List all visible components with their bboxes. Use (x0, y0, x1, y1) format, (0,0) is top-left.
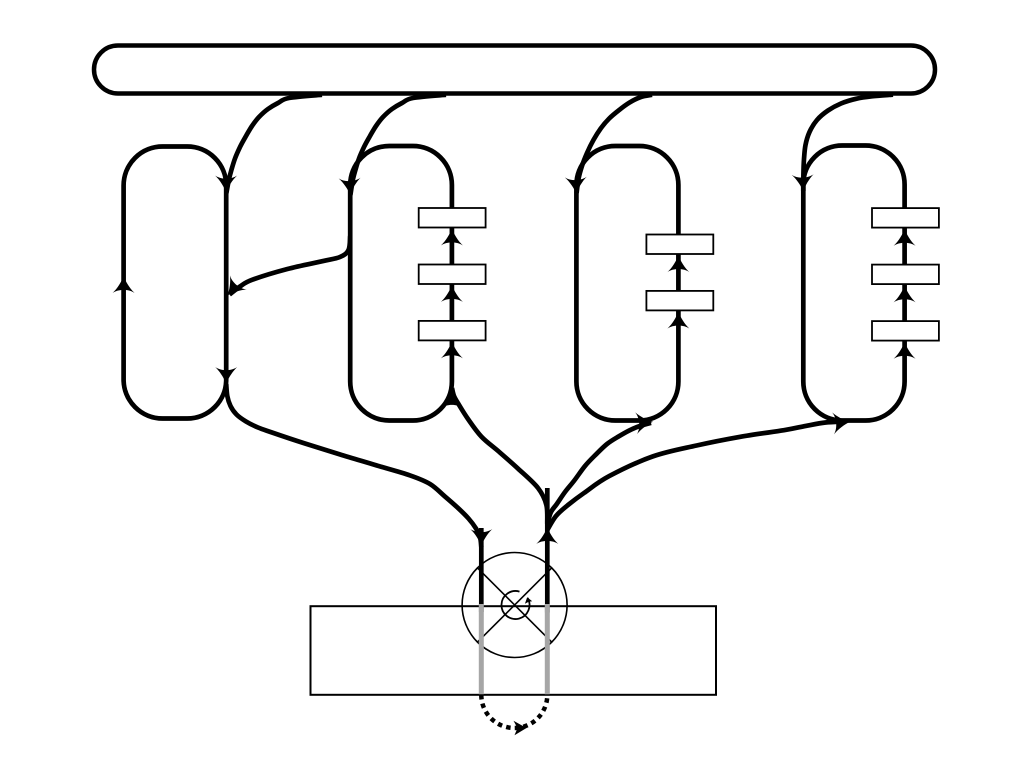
wire bar to L3 (577, 95, 652, 193)
arrow up into rect L3-1 (667, 255, 689, 272)
pump cross blade 1 (478, 568, 552, 642)
dashed arc arrowhead (514, 721, 527, 736)
arrow up into rect L4-1 (894, 229, 916, 246)
arrow up into rect L3-2 (667, 312, 689, 329)
loop L2 (350, 146, 452, 421)
arrowheads on thick wires (113, 174, 851, 546)
wire crossover L2 to L1 (230, 236, 351, 295)
arrow into L1 right top (215, 176, 237, 193)
radiator rect L2-2 (419, 265, 486, 285)
gray pipe left (479, 604, 484, 694)
arrow up L2 right (441, 391, 463, 408)
radiator rect L3-1 (646, 235, 713, 255)
arrow into L2 left top (339, 178, 362, 196)
arrow right on L4 bottom (832, 411, 851, 434)
pump cross blade 2 (478, 568, 552, 642)
arrow up pump outlet (536, 527, 558, 544)
arrow up into rect L2-2 (441, 285, 463, 302)
arrow right on L3 bottom (635, 411, 654, 434)
arrow crossover into L1 (219, 275, 247, 302)
loop L1 (124, 147, 227, 419)
rotation arc (501, 591, 529, 619)
wire bar to L4 (803, 95, 893, 191)
arrow up into rect L4-2 (894, 285, 916, 302)
wire bar to L2 (350, 95, 446, 195)
pump inlet line (479, 528, 484, 612)
loop L4 (803, 146, 904, 421)
pump outlet line (545, 488, 550, 613)
wire bar to L1 (226, 95, 322, 193)
arrow up into rect L2-3 (441, 341, 463, 358)
rotation arrowhead (525, 597, 532, 603)
radiator rect L4-1 (872, 208, 939, 228)
arrow down pump inlet (470, 529, 492, 546)
ground box (311, 606, 717, 695)
radiator rect L3-2 (646, 291, 713, 311)
wire pump to L3 (547, 423, 651, 524)
dashed return arc (481, 695, 547, 728)
wire pump to L4 (547, 422, 845, 530)
arrow into L4 left top (792, 174, 815, 192)
arrow up into rect L4-3 (894, 342, 916, 359)
radiator rect L4-3 (872, 321, 939, 341)
gray pipe right (545, 604, 550, 694)
wire pump to L2 (452, 388, 547, 524)
arrow down L1 right (215, 367, 237, 384)
radiator rect L2-3 (419, 321, 486, 341)
radiator rect L4-2 (872, 265, 939, 285)
wire L1 to pump inlet (226, 384, 481, 547)
arrow up L1 left (113, 276, 135, 293)
radiator rect L2-1 (419, 208, 486, 228)
supply manifold bar (94, 46, 935, 94)
arrow up into rect L2-1 (441, 229, 463, 246)
loop L3 (576, 146, 678, 421)
arrow into L3 left top (565, 177, 588, 195)
pump circle (462, 553, 567, 658)
